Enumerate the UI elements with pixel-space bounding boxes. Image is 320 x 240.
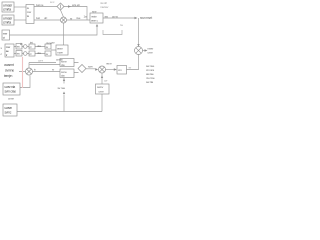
box MC2 [5,44,14,57]
wire TL1 to TB [14,6,26,8]
wire BL1 to C5 bottom [20,76,30,88]
svg-text:wrs ett: wrs ett [72,3,80,7]
box TL1 [2,2,14,12]
summing junction C4 [99,66,106,73]
wire SB2 down to bus [63,78,65,112]
box MC5 small bottom [16,51,22,57]
svg-text:svm crae: svm crae [5,90,17,94]
box MC3 [56,45,68,55]
svg-text:svmc: svmc [5,111,12,115]
svg-text:temjrn: temjrn [4,74,13,78]
svg-text:mscwv: mscwv [100,5,109,9]
wire feedback up to C4 [101,73,103,112]
svg-text:sr: sr [70,17,72,21]
box MC6 small top2 [29,44,35,49]
svg-text:cmrta: cmrta [3,8,11,12]
wire C1-C2 vertical [61,10,64,17]
svg-text:cta: cta [61,63,65,67]
wire diamond to C4 [74,63,97,73]
multiplier circle small b [24,52,28,56]
multiplier circle small a [24,45,28,49]
wire C3 bottom feedback vertical [127,55,139,70]
svg-text:sw rta: sw rta [146,80,153,84]
svg-text:sr: sr [52,68,54,72]
svg-text:ivst: ivst [36,16,40,20]
box FB2 on feedback [96,84,110,94]
svg-text:uta: uta [37,51,41,55]
svg-text:cta: cta [61,74,65,78]
box TB [26,5,34,24]
svg-text:iet: iet [30,41,33,45]
box MC8 small [45,44,51,49]
diamond multiplier D [78,65,86,73]
wire bottom bus [17,111,102,113]
pink guide line [22,57,24,88]
svg-text:cme: cme [99,90,105,94]
box SB2 [60,69,74,78]
svg-text:sv nve: sv nve [58,86,66,90]
svg-text:swv: swv [88,65,93,69]
wire box M down right to C3 [103,30,122,35]
svg-text:nve: nve [76,16,81,20]
box BL2 [3,104,17,116]
svg-text:crv a: crv a [112,15,118,19]
wire main output [103,17,135,19]
top right text block [100,1,109,9]
svg-text:cme: cme [148,51,154,55]
svg-text:cmrta: cmrta [3,21,11,25]
svg-text:uwsrn: uwsrn [5,106,13,110]
box LM [2,30,10,40]
arrowhead into C4 [95,68,98,71]
box SB1 [60,59,74,67]
wire TL2 to TB [14,19,26,21]
svg-text:nw e: nw e [106,62,112,66]
arrowhead into C3 top [137,44,139,47]
box TL2 [2,15,14,25]
wire into SB1 [30,64,61,66]
box MC9 small [45,51,51,56]
svg-text:tr: tr [6,53,8,57]
svg-text:cw e: cw e [38,59,44,63]
svg-text:awe c: awe c [91,19,99,23]
wire C3 out right [143,50,147,52]
wire C2 right to box M [67,19,91,21]
wire C1 right with corner down to main line [64,7,87,21]
arrowhead into FB box [114,68,117,71]
wire LM long line with corner up into box M [9,25,97,35]
svg-text:cmsr: cmsr [8,97,14,101]
wire TB to C2 [34,19,61,21]
box BL1 [3,83,20,95]
wire C2 down to MC3 [63,23,65,45]
wire C4 to FB box [106,69,117,71]
svg-text:uta: uta [37,44,41,48]
svg-text:mwe: mwe [57,51,63,55]
right text block (5 lines) [146,64,155,84]
svg-text:cr: cr [30,45,32,49]
arrowhead up on SB2 feedback [63,79,65,82]
svg-text:uwsr nta: uwsr nta [5,85,16,89]
summing junction C2 [61,17,67,23]
svg-text:smr: smr [92,10,97,14]
wire TB to C1 [34,6,57,8]
box M [90,13,103,23]
box MC7 small bottom2 [29,51,35,56]
svg-text:swr mset: swr mset [140,16,152,20]
wire C5 to SB2 [19,71,60,73]
box FB [117,66,127,75]
summing junction C3 [135,47,143,55]
arrowhead up mid band [20,43,22,45]
wire bus y62 to C5 top [29,63,56,69]
svg-text:svmne: svmne [5,69,14,73]
summing junction C5 [26,68,33,75]
summing junction C1 [57,3,64,10]
svg-text:swnv: swnv [97,85,104,89]
box MC4 small top [16,44,22,50]
svg-text:ivst ne: ivst ne [36,3,44,7]
arrowhead up into C4 bottom [101,76,103,79]
arrowhead C3 out [145,49,148,52]
arrowhead on C1 out [68,5,71,8]
arrowhead main out [135,17,138,20]
svg-text:uwsrmt: uwsrmt [4,63,14,67]
svg-text:cr: cr [30,52,32,56]
arrowhead into box M bottom [96,24,98,27]
wire mid band row ticks [14,47,56,54]
arrowhead up mid feedback [63,92,65,95]
svg-text:uF: uF [44,16,47,20]
